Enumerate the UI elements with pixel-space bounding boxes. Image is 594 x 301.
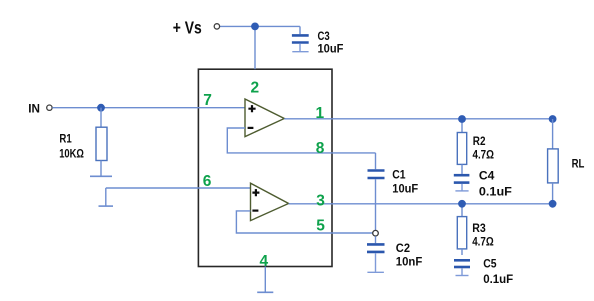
pin label 8 [316,140,325,157]
pin label 3 [316,192,325,209]
label +Vs [173,18,202,38]
capacitor C2 [367,236,385,272]
svg-text:0.1uF: 0.1uF [479,185,512,199]
svg-text:2: 2 [250,79,259,96]
capacitor C4 [454,175,470,191]
node junction pin1/R2 [458,115,466,123]
pin label 7 [203,92,212,109]
ground pin4 [257,267,273,293]
ground pin6 [99,188,114,206]
pin label 6 [203,173,212,190]
resistor R2 [457,119,466,174]
wire pin6 to op-amp U1B plus input [106,187,251,189]
pin label 4 [259,253,268,270]
wire U1B feedback to pin 5 node [236,211,372,233]
label C5 0.1uF [483,256,513,286]
pin label 5 [316,217,325,234]
node junction on Vs rail [251,23,259,31]
wire pin2 supply drop [254,26,256,69]
wire U1A output (pin 1) [284,118,552,120]
svg-text:4.7Ω: 4.7Ω [472,235,494,249]
label C3 10uF [318,29,344,56]
svg-text:5: 5 [316,217,325,234]
svg-text:C5: C5 [483,256,497,270]
label R1 10KΩ [59,131,84,160]
svg-text:10uF: 10uF [392,182,418,196]
resistor R3 [457,204,466,255]
svg-text:10nF: 10nF [396,255,423,269]
node pin5 open terminal [373,230,379,236]
svg-text:10uF: 10uF [318,42,344,56]
node junction pin3/RL [549,200,557,208]
svg-text:10KΩ: 10KΩ [59,146,84,160]
svg-text:+ Vs: + Vs [173,18,202,38]
label C1 10uF [392,168,418,196]
svg-text:RL: RL [572,156,585,170]
label IN [28,104,40,116]
svg-text:4: 4 [259,253,268,270]
wire +Vs rail [220,25,300,27]
node junction pin1/RL [549,115,557,123]
svg-text:C4: C4 [479,168,495,182]
svg-text:R2: R2 [473,134,486,148]
svg-text:IN: IN [28,104,40,116]
ground R1 [90,175,112,177]
svg-text:6: 6 [203,173,212,190]
svg-text:C2: C2 [396,241,410,255]
IC box U1 [198,69,332,266]
capacitor C3 [292,26,309,51]
svg-text:8: 8 [316,140,325,157]
op-amp U1A [245,99,284,137]
svg-text:3: 3 [316,192,325,209]
label C2 10nF [396,241,423,268]
wire IN to op-amp U1A plus input (pin 7) [52,107,245,109]
node junction IN/R1 [97,104,105,112]
wire U1A feedback to pin 8 and C1 [227,128,375,153]
svg-text:4.7Ω: 4.7Ω [473,148,495,162]
label R2 4.7Ω [473,134,495,162]
svg-text:0.1uF: 0.1uF [483,272,513,286]
op-amp U1B [251,183,289,220]
node junction pin3/R3 [458,200,466,208]
wire U1B output (pin 3) [289,203,553,205]
label RL [572,156,585,170]
resistor RL [548,119,559,204]
svg-text:C1: C1 [392,168,406,182]
svg-text:7: 7 [203,92,212,109]
pin label 1 [315,105,324,122]
label C4 0.1uF [479,168,512,198]
resistor R1 [96,108,107,176]
terminal +Vs [214,24,219,29]
svg-text:1: 1 [315,105,324,122]
svg-text:R3: R3 [472,221,486,235]
capacitor C1 [368,153,385,230]
terminal IN [47,105,52,110]
capacitor C5 [454,260,470,275]
svg-text:R1: R1 [59,131,72,145]
label R3 4.7Ω [472,221,494,248]
pin label 2 [250,79,259,96]
